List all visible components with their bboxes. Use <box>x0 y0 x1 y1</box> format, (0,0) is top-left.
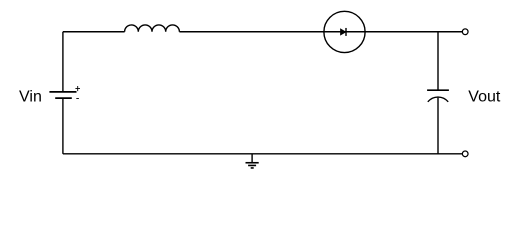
wire left rail lower <box>62 98 64 154</box>
diode D1 triangle <box>341 29 346 35</box>
ground bar 2 <box>248 164 256 166</box>
capacitor C1 top plate <box>427 89 449 91</box>
node: output bottom terminal <box>462 151 468 157</box>
wire bottom <box>63 153 462 155</box>
inductor L1 <box>125 25 180 32</box>
wire right rail upper <box>437 32 439 90</box>
diode enclosure circle U1 <box>324 11 365 52</box>
svg-text:Vout: Vout <box>468 88 501 105</box>
battery plus mark <box>75 86 80 91</box>
ground bar 1 <box>246 162 259 164</box>
wire top-left segment <box>63 31 125 33</box>
diode D1 cathode bar <box>345 28 347 36</box>
ground stub <box>251 154 253 163</box>
wire top-middle segment <box>179 31 462 33</box>
svg-text:Vin: Vin <box>19 88 42 105</box>
battery V1 top plate <box>49 91 76 93</box>
wire right rail lower <box>437 98 439 154</box>
battery minus mark <box>76 98 79 100</box>
capacitor C1 curved plate <box>428 97 448 102</box>
wire left rail upper <box>62 32 64 92</box>
ground bar 3 <box>251 167 254 169</box>
battery V1 bottom plate <box>55 97 72 99</box>
node: output top terminal <box>462 29 468 35</box>
